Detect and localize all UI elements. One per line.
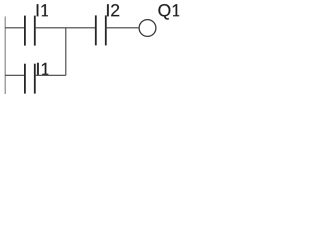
contact I2: [96, 15, 106, 45]
left rail: [4, 17, 6, 95]
wire top rung: rail to contact I1: [5, 27, 25, 29]
wire top rung: I2 to coil: [106, 27, 139, 29]
label Q1: [158, 4, 179, 20]
contact I1 (top): [25, 16, 35, 46]
wire bottom rung: rail to contact I1 (bottom): [5, 74, 25, 76]
label I1 (top): [37, 4, 48, 16]
wire bottom rung: I1 to branch join: [35, 74, 66, 76]
contact I1 (bottom): [25, 64, 35, 94]
branch vertical join: [65, 28, 67, 76]
wire top rung: I1 to I2: [35, 27, 96, 29]
label I2: [107, 4, 119, 16]
coil Q1 circle: [139, 20, 156, 37]
label I1 (bottom): [37, 63, 48, 75]
